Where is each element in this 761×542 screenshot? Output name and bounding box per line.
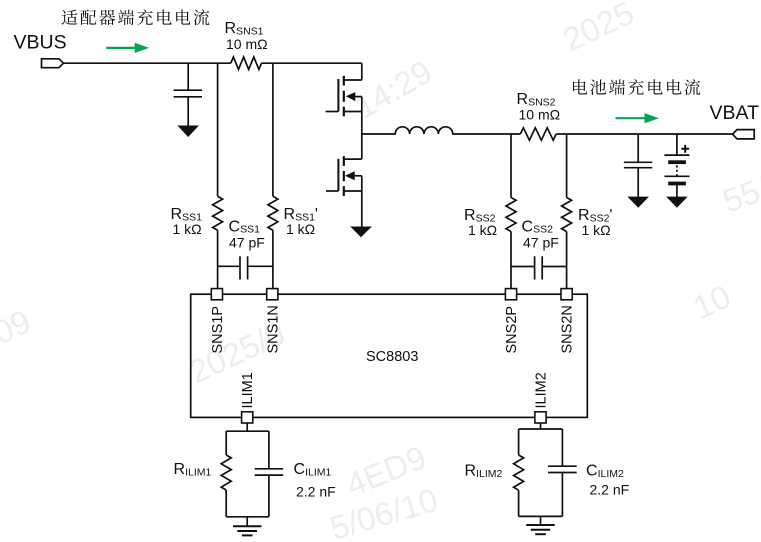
inductor L1 — [362, 127, 521, 134]
wire node D to RSS2p — [566, 134, 568, 198]
svg-text:1 kΩ: 1 kΩ — [468, 222, 497, 238]
capacitor CSS1 — [218, 256, 273, 279]
resistor RSS1' — [268, 196, 278, 230]
svg-text:10 mΩ: 10 mΩ — [519, 106, 561, 122]
wire RC2 top bar — [519, 429, 563, 466]
node VBUS terminal — [42, 59, 64, 68]
wire RSS2' to SNS2N — [566, 232, 568, 289]
svg-text:CSS1: CSS1 — [229, 218, 261, 235]
ground (ILIM2 network) — [526, 524, 554, 526]
battery BT1 — [664, 134, 689, 197]
resistor RILIM1 — [221, 455, 231, 490]
capacitor (battery output cap) — [624, 134, 652, 197]
resistor RSS2 — [506, 198, 516, 232]
capacitor CSS2 — [511, 256, 567, 279]
pin ILIM2 — [535, 412, 546, 423]
capacitor CILIM2 — [548, 466, 577, 472]
svg-text:1 kΩ: 1 kΩ — [582, 222, 611, 238]
pin SNS2P — [505, 289, 516, 300]
resistor RSNS1 — [231, 57, 262, 69]
ground (ILIM1 network) — [233, 525, 261, 527]
ground (VBUS cap) — [179, 126, 198, 136]
pin SNS1P — [211, 289, 222, 300]
op-amp U1 SC8803 body — [191, 294, 588, 417]
wire node B to RSS1p — [272, 63, 274, 196]
label 电池端充电电流 (battery-side charging current) — [573, 79, 700, 95]
transistor Q2 (low-side MOSFET) — [326, 134, 362, 227]
svg-text:VBAT: VBAT — [710, 102, 760, 124]
svg-text:VBUS: VBUS — [14, 32, 67, 54]
svg-text:SNS2N: SNS2N — [560, 305, 576, 353]
svg-text:2025: 2025 — [557, 0, 639, 58]
pin SNS1N — [267, 289, 278, 300]
svg-text:RSNS1: RSNS1 — [225, 20, 264, 37]
wire RSNS1 to Q1 drain — [262, 62, 362, 64]
wire RC1 top bar — [226, 431, 269, 469]
battery current arrow — [616, 113, 659, 123]
svg-text:SC8803: SC8803 — [366, 349, 418, 365]
svg-text:CSS2: CSS2 — [522, 218, 554, 235]
ground (output cap) — [629, 197, 648, 207]
wire RSS1 to SNS1P — [217, 230, 219, 289]
svg-text:09: 09 — [0, 302, 36, 351]
transistor Q1 (high-side MOSFET) — [326, 63, 362, 134]
svg-text:10 mΩ: 10 mΩ — [226, 36, 268, 52]
svg-text:SNS1N: SNS1N — [265, 305, 281, 353]
adapter current arrow — [106, 43, 149, 53]
ground (battery) — [667, 197, 686, 207]
svg-text:10: 10 — [687, 277, 736, 326]
svg-text:RILIM1: RILIM1 — [174, 461, 212, 478]
wire RC1 bottom bar — [226, 475, 269, 526]
pin SNS2N — [561, 289, 572, 300]
svg-text:ILIM1: ILIM1 — [240, 372, 256, 408]
svg-text:CILIM1: CILIM1 — [294, 461, 332, 478]
svg-text:2.2 nF: 2.2 nF — [590, 482, 630, 498]
resistor RILIM2 — [514, 455, 524, 490]
wire ILIM2 to RC — [540, 423, 542, 429]
node VBAT terminal — [733, 130, 755, 139]
svg-text:47 pF: 47 pF — [229, 235, 265, 251]
svg-text:SNS2P: SNS2P — [504, 306, 520, 354]
pin ILIM1 — [242, 412, 253, 423]
svg-text:RILIM2: RILIM2 — [465, 463, 503, 480]
svg-text:1 kΩ: 1 kΩ — [173, 221, 202, 237]
capacitor (VBUS input cap) — [174, 63, 202, 126]
resistor RSS2' — [562, 198, 572, 232]
capacitor CILIM1 — [255, 469, 284, 475]
svg-text:SNS1P: SNS1P — [210, 306, 226, 354]
wire RSS1' to SNS1N — [272, 230, 274, 289]
resistor RSNS2 — [520, 128, 556, 140]
label 适配器端充电电流 (adapter-side charging current) — [62, 9, 210, 25]
wire RC2 bottom bar — [519, 473, 563, 526]
wire ILIM1 to RC — [246, 423, 248, 431]
resistor RSS1 — [213, 196, 223, 230]
svg-text:47 pF: 47 pF — [523, 235, 559, 251]
wire VBUS rail — [63, 62, 230, 64]
svg-text:ILIM2: ILIM2 — [534, 372, 550, 408]
svg-text:1 kΩ: 1 kΩ — [286, 221, 315, 237]
ground (Q2 source) — [351, 227, 370, 237]
wire node C to RSS2 — [510, 134, 512, 198]
wire node A to RSS1 — [217, 63, 219, 196]
svg-text:CILIM2: CILIM2 — [586, 463, 624, 480]
svg-text:2.2 nF: 2.2 nF — [296, 484, 336, 500]
wire RSNS2 to VBAT — [556, 133, 732, 135]
wire RSS2 to SNS2P — [510, 232, 512, 289]
svg-text:55/0: 55/0 — [718, 163, 761, 220]
